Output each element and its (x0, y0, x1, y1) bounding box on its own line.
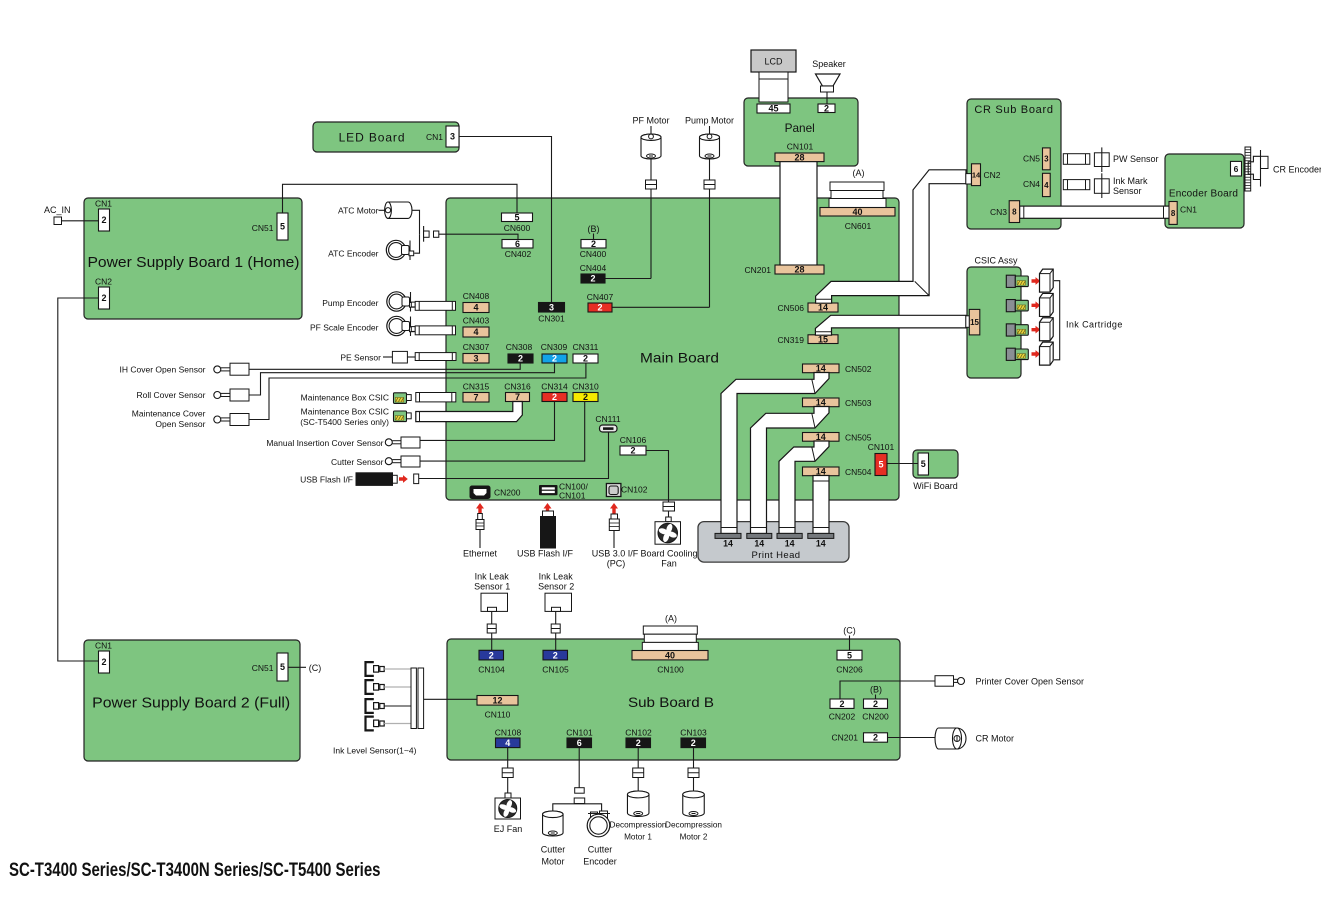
svg-text:(B): (B) (588, 224, 600, 234)
svg-text:Encoder Board: Encoder Board (1169, 189, 1238, 200)
svg-text:Main Board: Main Board (640, 350, 719, 366)
svg-text:CN200: CN200 (862, 712, 889, 722)
svg-text:ATC Motor: ATC Motor (338, 206, 379, 216)
svg-text:(C): (C) (309, 663, 322, 673)
svg-text:Ink Level Sensor(1~4): Ink Level Sensor(1~4) (333, 746, 417, 756)
svg-text:CN408: CN408 (463, 291, 490, 301)
svg-text:CN104: CN104 (478, 665, 505, 675)
svg-text:CN106: CN106 (620, 435, 647, 445)
svg-text:ATC Encoder: ATC Encoder (328, 249, 379, 259)
svg-text:8: 8 (1171, 209, 1176, 218)
svg-text:Maintenance Cover: Maintenance Cover (132, 409, 206, 419)
svg-text:CN2: CN2 (984, 170, 1001, 180)
svg-text:2: 2 (691, 738, 696, 748)
svg-text:12: 12 (492, 696, 502, 706)
svg-text:Ethernet: Ethernet (463, 549, 498, 559)
svg-text:CN403: CN403 (463, 316, 490, 326)
svg-text:Motor 2: Motor 2 (680, 833, 708, 842)
svg-text:CN5: CN5 (1023, 154, 1040, 164)
svg-text:2: 2 (101, 293, 106, 303)
svg-text:CR Sub Board: CR Sub Board (974, 104, 1053, 116)
svg-text:AC_IN: AC_IN (44, 205, 71, 215)
svg-text:4: 4 (505, 738, 510, 748)
svg-text:Pump Encoder: Pump Encoder (322, 298, 378, 308)
svg-text:4: 4 (1044, 181, 1049, 190)
svg-text:15: 15 (818, 334, 828, 344)
svg-text:CN400: CN400 (580, 249, 607, 259)
svg-text:3: 3 (473, 353, 478, 363)
svg-text:2: 2 (552, 392, 557, 402)
svg-text:CN111: CN111 (595, 414, 620, 424)
svg-text:Board Cooling: Board Cooling (640, 549, 697, 559)
svg-text:2: 2 (873, 733, 878, 743)
svg-text:Print Head: Print Head (752, 550, 801, 561)
svg-text:2: 2 (101, 215, 106, 225)
svg-text:CN504: CN504 (845, 467, 872, 477)
svg-text:14: 14 (785, 539, 795, 549)
svg-text:CN201: CN201 (745, 265, 772, 275)
svg-text:(PC): (PC) (607, 559, 626, 569)
svg-text:CN100: CN100 (657, 665, 684, 675)
svg-text:CN505: CN505 (845, 433, 872, 443)
svg-text:CN315: CN315 (463, 382, 490, 392)
svg-text:PF Motor: PF Motor (632, 116, 669, 126)
svg-text:CN200: CN200 (494, 488, 521, 498)
svg-text:2: 2 (583, 392, 588, 402)
svg-text:Cutter Sensor: Cutter Sensor (331, 457, 384, 467)
svg-text:Sensor 1: Sensor 1 (474, 582, 510, 592)
svg-text:CN102: CN102 (621, 485, 648, 495)
svg-text:Sensor 2: Sensor 2 (538, 582, 574, 592)
svg-text:USB 3.0 I/F: USB 3.0 I/F (592, 549, 639, 559)
svg-text:CN310: CN310 (572, 382, 599, 392)
svg-text:USB Flash I/F: USB Flash I/F (300, 475, 353, 485)
svg-text:2: 2 (583, 354, 588, 364)
svg-text:40: 40 (665, 650, 675, 660)
svg-text:Encoder: Encoder (583, 857, 617, 867)
svg-text:CN316: CN316 (504, 382, 531, 392)
svg-text:Pump Motor: Pump Motor (685, 116, 734, 126)
svg-text:PF Scale Encoder: PF Scale Encoder (310, 323, 379, 333)
svg-text:CN601: CN601 (845, 221, 872, 231)
svg-text:CN202: CN202 (829, 712, 856, 722)
svg-text:CN105: CN105 (542, 665, 569, 675)
svg-text:14: 14 (972, 170, 981, 179)
svg-text:28: 28 (794, 153, 804, 163)
svg-text:Sensor: Sensor (1113, 186, 1142, 196)
svg-text:EJ Fan: EJ Fan (494, 824, 523, 834)
svg-text:CN201: CN201 (832, 733, 859, 743)
svg-text:CN308: CN308 (506, 342, 533, 352)
svg-text:CN101: CN101 (868, 442, 895, 452)
svg-text:Sub Board B: Sub Board B (628, 694, 714, 710)
svg-text:CN502: CN502 (845, 364, 872, 374)
svg-text:CN307: CN307 (463, 342, 490, 352)
svg-text:CN51: CN51 (252, 663, 274, 673)
svg-text:CN101: CN101 (559, 491, 586, 501)
svg-text:CN101: CN101 (787, 142, 814, 152)
svg-text:6: 6 (577, 738, 582, 748)
svg-text:2: 2 (630, 446, 635, 456)
svg-text:CN1: CN1 (426, 132, 443, 142)
svg-text:5: 5 (514, 212, 519, 222)
svg-text:(A): (A) (853, 168, 865, 178)
svg-text:(A): (A) (665, 614, 677, 624)
svg-text:Speaker: Speaker (812, 59, 846, 69)
svg-text:CN311: CN311 (573, 342, 599, 352)
svg-text:5: 5 (847, 650, 852, 660)
svg-text:Ink Leak: Ink Leak (475, 572, 510, 582)
svg-text:2: 2 (591, 239, 596, 249)
svg-text:5: 5 (280, 222, 285, 232)
svg-text:Motor: Motor (541, 857, 564, 867)
svg-text:6: 6 (515, 239, 520, 249)
svg-text:CN110: CN110 (485, 710, 511, 720)
svg-text:Fan: Fan (661, 559, 677, 569)
svg-text:6: 6 (1234, 164, 1239, 174)
svg-text:Ink Leak: Ink Leak (539, 572, 574, 582)
svg-text:Cutter: Cutter (588, 845, 613, 855)
svg-text:IH Cover Open Sensor: IH Cover Open Sensor (120, 365, 206, 375)
svg-text:45: 45 (768, 104, 778, 114)
svg-text:Ink Cartridge: Ink Cartridge (1066, 320, 1123, 330)
svg-text:CN309: CN309 (541, 342, 568, 352)
svg-text:CN1: CN1 (1180, 205, 1197, 215)
svg-text:Panel: Panel (785, 121, 815, 135)
svg-text:2: 2 (839, 699, 844, 709)
svg-text:14: 14 (723, 539, 733, 549)
svg-text:CN600: CN600 (504, 223, 531, 233)
svg-text:2: 2 (636, 738, 641, 748)
svg-text:Decompression: Decompression (610, 821, 667, 830)
svg-text:3: 3 (1044, 155, 1049, 164)
svg-text:CSIC Assy: CSIC Assy (974, 256, 1018, 266)
svg-text:2: 2 (590, 274, 595, 284)
svg-text:2: 2 (489, 650, 494, 660)
svg-text:3: 3 (549, 302, 554, 312)
svg-text:7: 7 (515, 392, 520, 402)
svg-text:8: 8 (1012, 207, 1017, 216)
svg-text:14: 14 (818, 303, 828, 313)
svg-text:2: 2 (553, 650, 558, 660)
svg-text:CN101: CN101 (566, 728, 593, 738)
svg-text:15: 15 (970, 318, 979, 327)
svg-text:Decompression: Decompression (665, 821, 722, 830)
svg-text:Ink Mark: Ink Mark (1113, 176, 1148, 186)
svg-text:Printer Cover Open Sensor: Printer Cover Open Sensor (976, 677, 1085, 687)
svg-text:CN51: CN51 (252, 223, 274, 233)
svg-text:2: 2 (101, 657, 106, 667)
svg-text:4: 4 (473, 327, 478, 337)
svg-text:PE Sensor: PE Sensor (340, 353, 381, 363)
svg-text:40: 40 (852, 207, 862, 217)
svg-text:4: 4 (473, 303, 478, 313)
svg-text:CR Motor: CR Motor (976, 734, 1015, 744)
svg-text:SC-T3400 Series/SC-T3400N Seri: SC-T3400 Series/SC-T3400N Series/SC-T540… (9, 860, 381, 881)
svg-text:3: 3 (450, 132, 455, 142)
svg-text:USB Flash I/F: USB Flash I/F (517, 549, 574, 559)
svg-text:Roll Cover Sensor: Roll Cover Sensor (137, 390, 206, 400)
svg-text:CR Encoder: CR Encoder (1273, 165, 1321, 175)
svg-text:CN1: CN1 (95, 641, 112, 651)
svg-text:LCD: LCD (764, 57, 783, 67)
svg-text:CN503: CN503 (845, 398, 872, 408)
svg-text:Cutter: Cutter (541, 845, 566, 855)
svg-text:5: 5 (878, 460, 883, 470)
svg-text:14: 14 (754, 539, 764, 549)
svg-text:CN314: CN314 (541, 382, 568, 392)
svg-text:Manual Insertion Cover Sensor: Manual Insertion Cover Sensor (266, 438, 383, 448)
svg-text:CN2: CN2 (95, 277, 112, 287)
svg-text:28: 28 (794, 265, 804, 275)
svg-text:CN4: CN4 (1023, 179, 1040, 189)
svg-text:5: 5 (280, 662, 285, 672)
svg-text:(SC-T5400 Series only): (SC-T5400 Series only) (300, 417, 389, 427)
svg-text:CN102: CN102 (625, 728, 652, 738)
svg-text:(B): (B) (870, 685, 882, 695)
svg-text:2: 2 (824, 103, 829, 113)
svg-text:CN3: CN3 (990, 207, 1007, 217)
svg-text:CN1: CN1 (95, 199, 112, 209)
svg-text:2: 2 (597, 303, 602, 313)
svg-text:LED Board: LED Board (339, 131, 406, 145)
svg-text:PW Sensor: PW Sensor (1113, 154, 1159, 164)
svg-text:CN407: CN407 (587, 292, 614, 302)
svg-text:2: 2 (518, 354, 523, 364)
svg-text:7: 7 (473, 392, 478, 402)
svg-text:Power Supply Board 1 (Home): Power Supply Board 1 (Home) (88, 255, 300, 271)
svg-text:5: 5 (921, 459, 926, 469)
svg-text:CN108: CN108 (495, 728, 522, 738)
svg-text:CN103: CN103 (680, 728, 707, 738)
svg-text:CN506: CN506 (778, 303, 805, 313)
svg-text:WiFi Board: WiFi Board (913, 481, 958, 491)
svg-text:Motor 1: Motor 1 (624, 833, 652, 842)
svg-text:14: 14 (816, 539, 826, 549)
svg-text:CN404: CN404 (580, 263, 607, 273)
svg-text:CN206: CN206 (836, 665, 863, 675)
svg-text:2: 2 (873, 699, 878, 709)
svg-text:Maintenance Box CSIC: Maintenance Box CSIC (301, 393, 389, 403)
svg-text:2: 2 (552, 354, 557, 364)
svg-text:Power Supply Board 2 (Full): Power Supply Board 2 (Full) (92, 696, 290, 712)
svg-text:CN402: CN402 (505, 249, 532, 259)
svg-text:Open Sensor: Open Sensor (155, 419, 205, 429)
svg-text:CN301: CN301 (538, 314, 565, 324)
svg-text:Maintenance Box CSIC: Maintenance Box CSIC (301, 407, 389, 417)
svg-text:CN319: CN319 (778, 335, 805, 345)
svg-text:(C): (C) (843, 626, 856, 636)
